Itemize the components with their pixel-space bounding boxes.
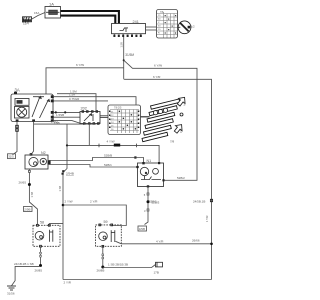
svg-text:2 Y/R: 2 Y/R bbox=[64, 281, 72, 285]
pin tick 5 bbox=[147, 193, 149, 195]
wire feed flasher from relay bbox=[66, 124, 68, 145]
wire module to harness bbox=[141, 116, 150, 118]
wire 6 Y/W feed left bbox=[46, 68, 124, 94]
svg-text:52B/2: 52B/2 bbox=[177, 176, 185, 180]
wire pin4 down from 241 bbox=[123, 37, 125, 68]
svg-text:7/8: 7/8 bbox=[170, 140, 175, 144]
svg-text:1 SB 2B/1B.3B: 1 SB 2B/1B.3B bbox=[108, 263, 128, 267]
pins lamp A bbox=[37, 224, 51, 247]
svg-text:31/56: 31/56 bbox=[7, 292, 15, 296]
wire relay to module link bbox=[100, 116, 108, 118]
bead 52B/3 bbox=[147, 200, 150, 203]
wire branch left lamps bbox=[63, 145, 67, 279]
harness bar 5 bbox=[144, 125, 172, 135]
wire relay bottom to lamp N2 bbox=[31, 122, 96, 155]
harness bar 1 bbox=[151, 99, 180, 109]
svg-text:2/9B: 2/9B bbox=[24, 208, 30, 212]
relay 202 bbox=[80, 112, 100, 124]
svg-text:N1: N1 bbox=[147, 159, 152, 163]
svg-text:17B: 17B bbox=[154, 271, 159, 275]
connector beads on bar 2 bbox=[153, 111, 157, 115]
svg-text:1A: 1A bbox=[49, 1, 54, 6]
table cell dots bbox=[165, 15, 177, 34]
svg-text:2 Y/W: 2 Y/W bbox=[65, 200, 73, 204]
svg-text:241: 241 bbox=[133, 20, 139, 24]
svg-text:2/54B: 2/54B bbox=[66, 172, 74, 176]
node dots on 1R bbox=[55, 111, 57, 113]
wire 241 to table lower bbox=[146, 29, 157, 31]
connector box 241 bbox=[112, 24, 146, 34]
wire 1.5R bbox=[54, 97, 136, 105]
harness bar 6 bbox=[142, 132, 168, 141]
wire plug to fuse bbox=[31, 13, 45, 20]
ticks lamp A wire bbox=[40, 252, 42, 254]
label 3/9B boxed bbox=[138, 226, 147, 231]
wire bottom bus bbox=[63, 279, 212, 281]
pin N2 right bbox=[48, 160, 51, 165]
pins lamp B bbox=[99, 224, 113, 247]
lamp unit N2 bbox=[25, 155, 48, 169]
connector 3A left wire bbox=[16, 125, 19, 128]
svg-text:15/4: 15/4 bbox=[23, 22, 29, 26]
svg-text:26/66: 26/66 bbox=[192, 238, 200, 242]
wire junction to right lamp bbox=[63, 205, 126, 226]
table row labels bbox=[158, 15, 161, 35]
svg-text:N2: N2 bbox=[41, 151, 46, 155]
flasher unit N1 bbox=[138, 163, 164, 187]
module left pins bbox=[109, 111, 139, 129]
svg-text:58: 58 bbox=[40, 221, 44, 225]
pin tick 3 bbox=[147, 209, 149, 211]
wire ground run left bbox=[12, 266, 41, 285]
wire 0.75GR bbox=[54, 100, 108, 102]
fuse 1A bbox=[45, 7, 61, 19]
harness arrow 2 bbox=[175, 95, 188, 108]
wire lamp A bottom ground bbox=[40, 247, 42, 266]
node circle small bbox=[180, 113, 183, 116]
wire lamp B bottom ground bbox=[102, 247, 104, 267]
svg-text:1.5SB: 1.5SB bbox=[56, 113, 64, 117]
svg-text:1 SB: 1 SB bbox=[30, 192, 34, 198]
wire ground run right bbox=[103, 265, 156, 268]
svg-text:52B/1: 52B/1 bbox=[104, 163, 112, 167]
svg-text:31/5M: 31/5M bbox=[125, 53, 134, 57]
ignition switch symbol bbox=[178, 21, 191, 34]
lamp housing 59 dashed bbox=[96, 225, 122, 246]
pin stubs 241 bbox=[114, 33, 140, 36]
svg-text:1.5R: 1.5R bbox=[119, 42, 123, 48]
svg-text:26/8B: 26/8B bbox=[97, 269, 105, 273]
wire 1R to relay bbox=[54, 111, 80, 113]
connector bead N2 wire bbox=[28, 183, 31, 186]
svg-text:24/1B.2B 1 SB: 24/1B.2B 1 SB bbox=[14, 262, 34, 266]
svg-text:15A: 15A bbox=[34, 11, 39, 15]
wire 6 Y/W right diagonal bbox=[124, 60, 197, 180]
svg-text:1.5M: 1.5M bbox=[70, 90, 77, 94]
node lamps junction bbox=[62, 204, 65, 207]
harness arrow 1 bbox=[172, 122, 185, 135]
bead 26/85 bbox=[39, 264, 42, 267]
wire 6 Y/R bbox=[124, 68, 212, 280]
thick battery wire lower bbox=[61, 16, 116, 24]
bulb left lamp B bbox=[99, 230, 115, 242]
svg-text:0.75GR: 0.75GR bbox=[69, 97, 80, 101]
wire flasher bottom down bbox=[145, 187, 149, 225]
ticks lamp B wire bbox=[102, 254, 104, 256]
wire N2 right lower to flasher bbox=[48, 165, 138, 168]
label 31/55 boxed bbox=[8, 154, 16, 159]
wire branch relay line to feed bbox=[88, 124, 90, 145]
svg-text:4 Y/R: 4 Y/R bbox=[156, 239, 164, 243]
node feed junction bbox=[66, 144, 68, 146]
wire lamp A pin2 to bus bbox=[49, 223, 63, 226]
svg-text:6 Y/W: 6 Y/W bbox=[154, 64, 162, 68]
ground G31/56 bbox=[7, 286, 16, 290]
bulb left lamp A bbox=[35, 230, 53, 242]
node right vertical join bbox=[210, 243, 213, 246]
switch assembly 3A bbox=[11, 94, 53, 122]
pins of 241 bbox=[113, 35, 141, 37]
terminal 17B bbox=[156, 262, 163, 267]
svg-text:59: 59 bbox=[104, 220, 108, 224]
harness bar 4 bbox=[145, 119, 173, 129]
wire left ground branch 3A bbox=[13, 122, 18, 155]
module row labels bbox=[111, 111, 114, 131]
central module pin table bbox=[110, 110, 139, 134]
fuse table bbox=[157, 12, 177, 38]
wire 1.5SB to relay bbox=[54, 116, 80, 118]
harness bar 2 bbox=[149, 106, 177, 116]
pins N1 bbox=[136, 162, 164, 188]
svg-text:52B/B: 52B/B bbox=[104, 153, 112, 157]
thick battery wire upper bbox=[61, 11, 119, 24]
wire 241 to table upper bbox=[146, 26, 157, 28]
svg-text:2 Y/R: 2 Y/R bbox=[90, 200, 98, 204]
wire lamp B right side bbox=[116, 241, 212, 244]
svg-text:26/65: 26/65 bbox=[19, 181, 27, 185]
lamp housing 58 dashed bbox=[33, 225, 60, 246]
connector ticks on branch bbox=[62, 170, 64, 172]
label 2/9B boxed bbox=[24, 207, 33, 212]
harness bar 3 bbox=[147, 112, 175, 122]
svg-text:31/5: 31/5 bbox=[8, 155, 14, 159]
svg-text:1: 1 bbox=[180, 130, 182, 134]
svg-text:26/85: 26/85 bbox=[35, 269, 43, 273]
svg-text:2: 2 bbox=[184, 103, 186, 107]
svg-text:6 Y/W: 6 Y/W bbox=[76, 63, 84, 67]
wire N2 right upper to flasher bbox=[48, 158, 144, 163]
pins 3A right bbox=[51, 95, 54, 121]
svg-text:3/9B: 3/9B bbox=[139, 227, 145, 231]
svg-text:24/5B.1B: 24/5B.1B bbox=[193, 200, 205, 204]
module cell dots bbox=[119, 111, 136, 130]
svg-text:6 Y/R: 6 Y/R bbox=[153, 75, 161, 79]
pins 3A bottom bbox=[16, 119, 19, 121]
bead 26/8B bbox=[101, 266, 104, 269]
tick on feed left bbox=[98, 144, 100, 148]
wire N2 bottom down bbox=[29, 169, 37, 225]
svg-text:4 Y/W: 4 Y/W bbox=[107, 140, 115, 144]
wire y145 feed bbox=[67, 145, 159, 162]
connector on 52B wire bbox=[134, 156, 136, 158]
svg-text:1 SB: 1 SB bbox=[58, 186, 62, 192]
pins 202 bbox=[82, 111, 99, 125]
svg-text:1 Y/R: 1 Y/R bbox=[205, 215, 209, 222]
pin 3A top bbox=[14, 92, 17, 94]
svg-text:7/8 2/5: 7/8 2/5 bbox=[114, 107, 122, 110]
splice bar on feed bbox=[114, 144, 120, 147]
pin N2 top bbox=[30, 154, 32, 156]
wire 1SB diagonal to relay bbox=[54, 121, 84, 125]
svg-text:52B/1: 52B/1 bbox=[149, 200, 157, 204]
svg-text:1.5M: 1.5M bbox=[51, 120, 58, 124]
node pin4 junction bbox=[123, 59, 125, 61]
tick on feed right bbox=[136, 144, 138, 148]
wire upper relay feed bbox=[57, 94, 96, 112]
connector tick right vertical bbox=[210, 199, 212, 201]
svg-text:202: 202 bbox=[81, 106, 87, 110]
connector plug 15/4 bbox=[23, 17, 32, 23]
svg-text:1/2: 1/2 bbox=[191, 25, 195, 29]
pin tick N2 wire bbox=[29, 170, 31, 172]
